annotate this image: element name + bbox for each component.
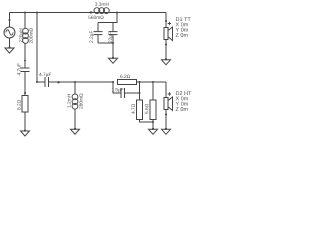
wire woofer to ground <box>165 40 167 60</box>
node junction C <box>57 81 59 83</box>
wire R1 right <box>137 81 167 83</box>
inductor L3 1.2mH <box>72 94 78 100</box>
wire woofer drop <box>165 13 167 28</box>
ground Lpad <box>152 128 154 130</box>
resistor R3 5.6ohm <box>150 100 156 120</box>
label tweeter name <box>176 91 191 95</box>
label R1 value <box>120 75 130 78</box>
label C1 value <box>39 73 51 77</box>
label L1 Rs <box>88 16 103 19</box>
plus sign woofer <box>168 22 171 25</box>
wire tweeter to ground <box>165 110 167 130</box>
wire generator bottom lead <box>9 38 11 48</box>
wire tweeter drop <box>165 82 167 98</box>
label C3 value <box>108 32 112 43</box>
wire C1 to RC block <box>49 81 114 83</box>
wire to C1 <box>37 81 45 83</box>
wire C4 path <box>113 82 140 93</box>
label tweeter Y <box>176 102 188 106</box>
capacitor C1 4.7uF series <box>45 77 49 87</box>
label L3 value <box>67 94 70 107</box>
speaker D2 HT <box>164 98 168 110</box>
node R4 pin <box>24 92 26 94</box>
node corner B <box>36 81 38 83</box>
wire L3 to ground <box>74 109 76 129</box>
node rail junction B <box>36 11 38 13</box>
speaker D1 TT <box>164 28 168 40</box>
node junction G <box>138 81 140 83</box>
capacitor C2 2.2uF <box>94 23 103 44</box>
label woofer name <box>176 17 191 21</box>
wire shunt caps riser <box>98 13 117 23</box>
AC source G1 <box>4 27 15 38</box>
label R2 value <box>131 104 134 114</box>
node junction F <box>112 81 114 83</box>
label C4 value <box>112 88 124 92</box>
label C2 value <box>89 31 93 43</box>
wire R4 to ground <box>24 112 26 131</box>
inductor L1 3.3mH <box>94 8 100 14</box>
wire L2 to C5 <box>24 43 26 67</box>
label L2 Rs <box>29 28 32 43</box>
resistor R1 6.2ohm <box>118 80 137 85</box>
label L1 value <box>95 2 109 5</box>
inductor L2 220uH <box>23 28 29 34</box>
wire Lpad bottom bus <box>140 120 154 130</box>
label R4 value <box>17 100 20 110</box>
label woofer Y <box>176 28 188 32</box>
label R3 value <box>145 104 148 114</box>
wire rail to L2 <box>24 13 26 29</box>
node tweeter pin <box>165 113 167 115</box>
label woofer X <box>176 22 188 26</box>
wire top rail <box>10 12 167 14</box>
node Lpad bus junction <box>152 121 154 123</box>
label L2 value <box>19 29 23 43</box>
node junction D <box>74 81 76 83</box>
ground tweeter <box>165 128 167 130</box>
ground generator <box>8 47 10 49</box>
node L1 left pin <box>90 11 92 13</box>
label tweeter Z <box>176 107 188 111</box>
label C5 value <box>17 63 21 75</box>
plus sign tweeter <box>168 92 171 95</box>
ground caps <box>112 57 114 59</box>
node rail junction A <box>24 11 26 13</box>
wire highpass feed <box>36 13 38 83</box>
node woofer pin <box>165 20 167 22</box>
node generator pin <box>8 19 10 21</box>
ground L3 <box>74 128 76 130</box>
label tweeter X <box>176 96 188 100</box>
node rail junction E <box>116 11 118 13</box>
wire to L3 <box>74 82 76 94</box>
ground woofer <box>165 58 167 60</box>
label woofer Z <box>176 33 188 37</box>
ground branch A <box>24 130 26 132</box>
node junction I <box>152 81 154 83</box>
node caps bus junction <box>112 42 114 44</box>
wire to R2 <box>139 82 141 100</box>
wire generator top lead <box>9 13 11 28</box>
wire caps bottom bus <box>98 42 113 44</box>
node C5 pin <box>24 60 26 62</box>
label L3 Rs <box>79 94 82 109</box>
wire C5 to R4 <box>24 72 26 96</box>
capacitor C3 22uF <box>109 23 118 44</box>
capacitor C5 4.7uF <box>21 68 30 72</box>
resistor R2 4.7ohm <box>137 100 143 120</box>
resistor R4 8.2ohm <box>22 96 28 113</box>
node junction H <box>138 92 140 94</box>
capacitor C4 1.5uF <box>121 88 125 98</box>
wire caps to ground <box>112 43 114 58</box>
wire to R3 <box>152 82 154 100</box>
node woofer bottom pin <box>165 43 167 45</box>
